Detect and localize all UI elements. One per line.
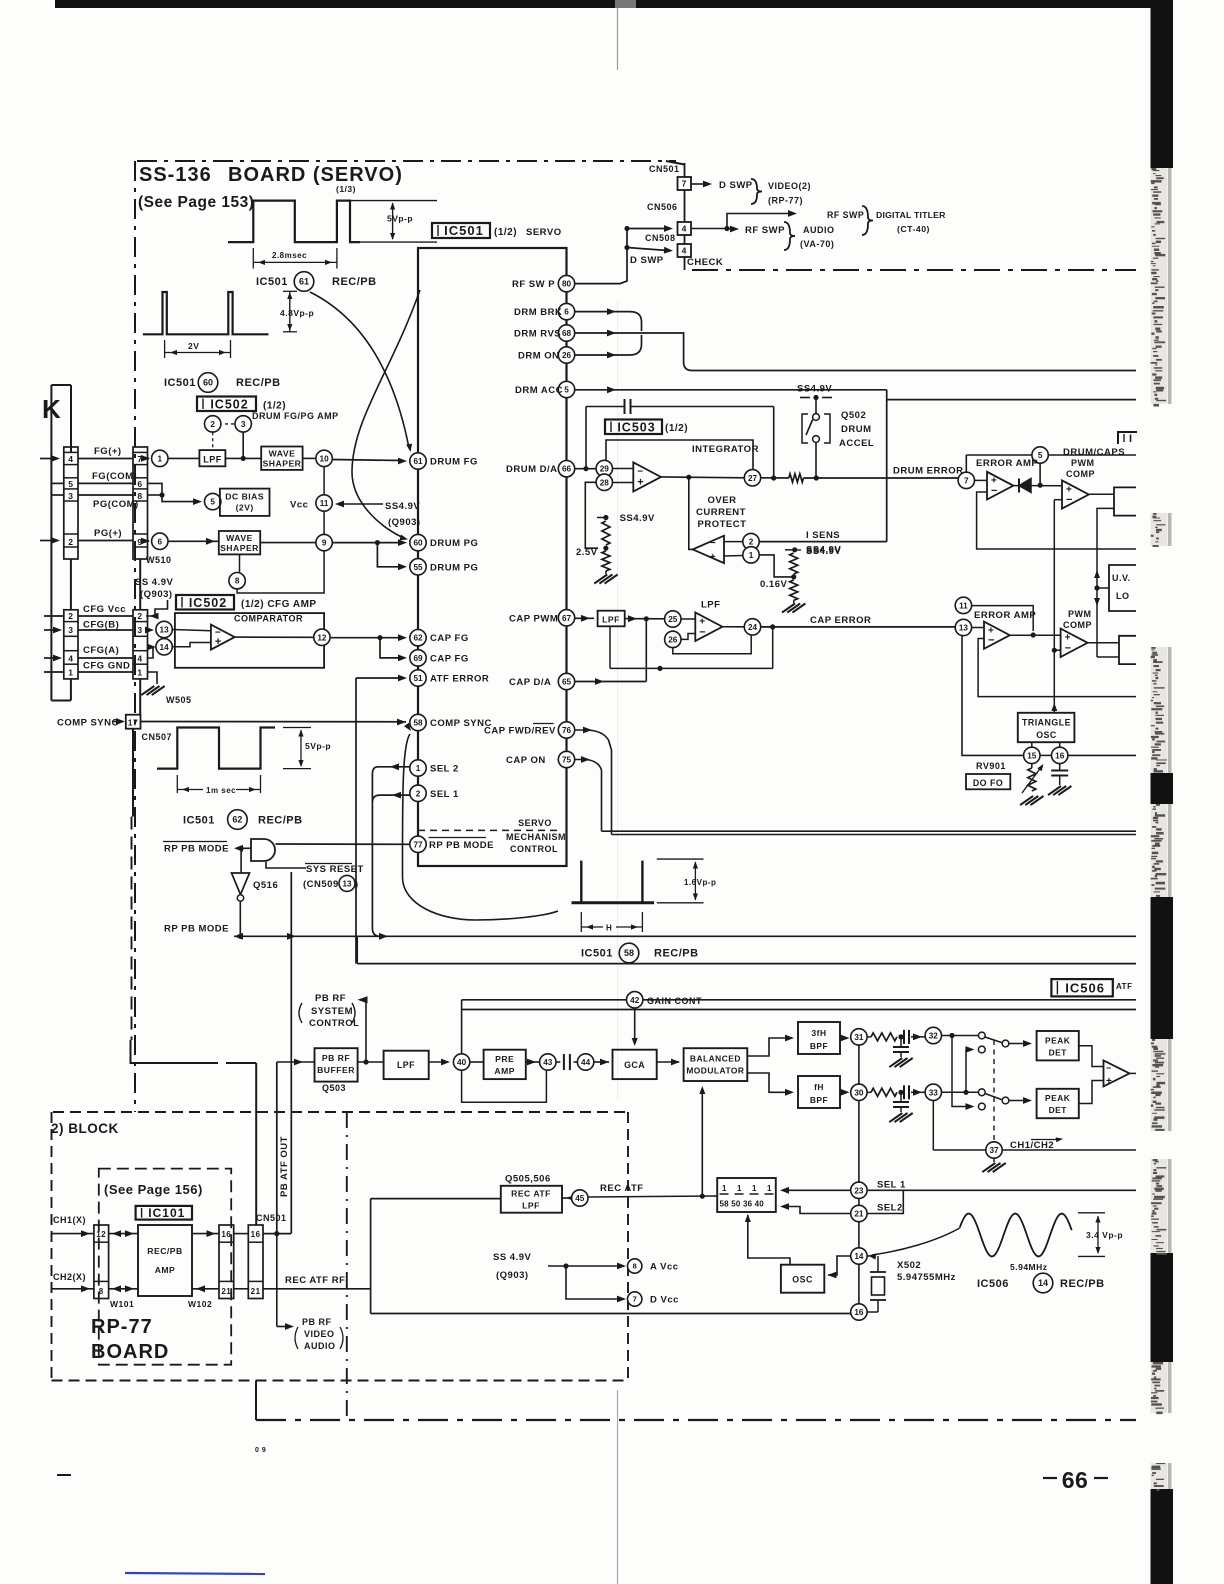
svg-text:SYSTEM: SYSTEM <box>311 1006 353 1017</box>
U.V. LO box partial <box>1109 565 1136 611</box>
IC506 pin 37 <box>986 1142 1002 1158</box>
switch gang dashed link to pin 37 <box>993 1040 995 1142</box>
wire CN501-21 REC ATF RF <box>263 1288 371 1290</box>
wire REC ATF up into balanced modulator <box>701 1089 703 1196</box>
IC504 pin 16 <box>1059 742 1061 747</box>
svg-text:0.16V: 0.16V <box>760 579 787 590</box>
svg-text:65: 65 <box>562 677 572 686</box>
svg-text:IC502: IC502 <box>189 596 227 610</box>
page number 66 <box>1043 1477 1057 1479</box>
wire BM to fH BPF <box>747 1073 791 1092</box>
wire pin 40 to PRE AMP <box>470 1061 484 1063</box>
svg-text:+: + <box>637 477 644 489</box>
svg-text:80: 80 <box>562 280 572 289</box>
wire pin 24 to CAP ERROR line <box>761 626 959 628</box>
svg-text:I SENS: I SENS <box>806 530 840 541</box>
svg-text:DRUM FG/PG AMP: DRUM FG/PG AMP <box>252 411 339 421</box>
svg-text:16: 16 <box>854 1308 864 1317</box>
wire RF SWP out of CN506 <box>691 228 727 230</box>
svg-text:58 50 36 40: 58 50 36 40 <box>720 1200 765 1209</box>
svg-text:SS 4.9V: SS 4.9V <box>493 1252 532 1263</box>
svg-text:SHAPER: SHAPER <box>263 458 302 468</box>
IC501 pin 67 CAP PWM <box>558 610 574 626</box>
SS-136 board dash-dot border top <box>137 160 676 162</box>
svg-text:COMP: COMP <box>1066 469 1095 479</box>
wire BM to 3fH BPF <box>747 1038 791 1056</box>
capstan error amp <box>972 627 984 629</box>
svg-text:IC506: IC506 <box>1065 980 1105 995</box>
IC503 pin 27 <box>744 470 760 486</box>
wire D SWP from CN501-7 <box>691 183 706 185</box>
PEAK DET block 1 <box>1037 1031 1079 1060</box>
wire GCA to BALANCED MODULATOR <box>657 1061 679 1063</box>
wire FG(COM)/PG(COM) to pin 5 <box>148 483 171 501</box>
svg-text:(VA-70): (VA-70) <box>800 239 834 249</box>
svg-text:FG(COM): FG(COM) <box>92 471 137 482</box>
svg-text:RF SWP: RF SWP <box>827 210 864 220</box>
svg-text:27: 27 <box>748 474 758 483</box>
IC502 pin 10 <box>303 457 316 459</box>
INTEGRATOR box outline <box>606 440 753 470</box>
connector column CN501/CN506/CN508 <box>666 161 685 165</box>
svg-text:COMP SYNC: COMP SYNC <box>430 718 492 729</box>
svg-text:(1/3): (1/3) <box>336 184 356 194</box>
IC506 pin 8 A Vcc <box>628 1259 642 1273</box>
switch lower common and lever <box>985 1094 1002 1100</box>
svg-text:25: 25 <box>668 615 678 624</box>
COMPARATOR box <box>175 613 324 668</box>
wire pin 27 to drum error line with series resistor <box>761 477 789 479</box>
svg-text:61: 61 <box>413 457 423 466</box>
wire pin6 to wave shaper 2 <box>168 540 219 542</box>
svg-text:SS4.9V: SS4.9V <box>797 384 832 395</box>
svg-text:INTEGRATOR: INTEGRATOR <box>692 444 759 455</box>
wire DRM RVS <box>575 332 642 334</box>
svg-text:OSC: OSC <box>1036 730 1057 740</box>
RC network row 1 <box>867 1036 871 1038</box>
wire RP PB MODE into AND gate top input <box>236 847 251 849</box>
drum error amp feedback to right edge <box>977 492 1136 549</box>
wire PRE AMP to pin 43 <box>526 1061 540 1063</box>
drum integrator op amp <box>613 468 634 470</box>
wire divider box left to REC ATF <box>714 1195 717 1197</box>
svg-text:3fH: 3fH <box>812 1028 827 1038</box>
svg-text:ATF: ATF <box>1116 982 1132 991</box>
switch contacts lower <box>978 1089 985 1096</box>
svg-text:BOARD: BOARD <box>91 1341 169 1363</box>
connector W101 column <box>94 1225 109 1299</box>
svg-text:37: 37 <box>989 1146 999 1155</box>
svg-text:+: + <box>215 636 222 648</box>
svg-text:43: 43 <box>543 1058 553 1067</box>
IC501 pin 75 CAP ON <box>558 751 574 767</box>
wire buffer to LPF <box>358 1061 384 1063</box>
BALANCED MODULATOR block <box>684 1048 748 1081</box>
IC506 pin 30 <box>851 1084 867 1100</box>
svg-text:5: 5 <box>68 479 73 489</box>
connector W505 right column <box>133 610 148 679</box>
IC503 pin 2 <box>724 541 743 543</box>
page center fold line <box>617 8 619 70</box>
stray mark bottom left <box>57 1474 71 1476</box>
wire CAP PWM pin 67 to LPF <box>575 617 594 619</box>
wire LPF to pin 40 <box>429 1061 446 1063</box>
svg-text:I: I <box>1129 433 1133 445</box>
svg-text:PG(+): PG(+) <box>94 528 122 539</box>
wire OCP output to integrator node <box>689 477 693 549</box>
wire SEL 1 to pin 2 <box>372 795 409 802</box>
label box IC506 ATF <box>1051 979 1112 996</box>
svg-text:14: 14 <box>160 643 170 652</box>
IC506 pin 40 <box>453 1054 469 1070</box>
IC501 pin 62 CAP FG <box>410 630 426 646</box>
svg-text:(Q903): (Q903) <box>388 517 421 528</box>
blue pen line bottom left <box>125 1573 265 1574</box>
svg-text:CAP FG: CAP FG <box>430 633 469 644</box>
rail RP PB MODE to right edge <box>240 935 1136 937</box>
leader curve from label to pin 60 <box>352 290 420 538</box>
svg-text:4: 4 <box>137 654 142 664</box>
RP-77 dashed block outline <box>99 1169 231 1365</box>
wire buffer node to PB RF SYSTEM CONTROL <box>365 1000 367 1062</box>
svg-text:DET: DET <box>1049 1048 1068 1058</box>
svg-text:−: − <box>988 635 995 647</box>
svg-text:51: 51 <box>413 674 423 683</box>
label box IC501 (1/2) SERVO <box>432 223 490 238</box>
svg-text:58: 58 <box>413 718 423 727</box>
dimension 5Vp-p for waveform <box>343 200 437 202</box>
svg-text:−: − <box>991 485 998 497</box>
dimension 2V <box>164 340 166 358</box>
W505 ground <box>148 672 158 684</box>
wire REC ATF LPF output to pin 16 rail <box>371 1198 501 1200</box>
wire AMP to W102-21 <box>192 1288 219 1290</box>
IC503 pin 29 <box>596 460 612 476</box>
IC502 pin 12 <box>235 636 314 638</box>
svg-text:CH2(X): CH2(X) <box>53 1272 86 1282</box>
feedback pin 24 to pin 26 <box>673 635 751 654</box>
wire AMP to W102-16 <box>192 1233 219 1235</box>
PEAK DET block 2 <box>1037 1089 1079 1118</box>
svg-text:44: 44 <box>581 1058 591 1067</box>
svg-text:2.8msec: 2.8msec <box>272 251 307 260</box>
DRM ACC / I SENS vertical and right rail <box>886 390 888 542</box>
svg-text:MODULATOR: MODULATOR <box>686 1066 744 1076</box>
svg-text:RP-77: RP-77 <box>91 1316 153 1338</box>
capstan error amp feedback rail <box>978 639 1136 697</box>
waveform COMP SYNC 5Vp-p square <box>157 728 275 769</box>
svg-text:69: 69 <box>413 654 423 663</box>
svg-text:fH: fH <box>814 1082 824 1092</box>
svg-text:5Vp-p: 5Vp-p <box>387 214 413 224</box>
connector W102 column <box>219 1225 234 1299</box>
pin 37 ground <box>993 1158 995 1162</box>
GCA block <box>613 1050 657 1079</box>
SS-136 board dash-dot border bottom <box>256 1419 1136 1421</box>
svg-text:SERVO: SERVO <box>526 227 562 238</box>
right binding strip <box>1151 0 1168 1584</box>
svg-text:SS4.9V: SS4.9V <box>385 501 420 512</box>
svg-text:3: 3 <box>241 420 246 429</box>
svg-text:IC101: IC101 <box>148 1206 185 1220</box>
svg-text:ERROR AMP: ERROR AMP <box>974 610 1036 621</box>
wire conn9 to IC502 pin 6 <box>148 540 150 542</box>
wire pin10 to IC501 pin 61 <box>332 460 401 461</box>
IC501 pin 76 CAP FWD/REV <box>558 722 574 738</box>
svg-text:16: 16 <box>1055 751 1065 760</box>
svg-text:5Vp-p: 5Vp-p <box>305 741 331 751</box>
svg-text:): ) <box>355 879 359 890</box>
svg-text:1: 1 <box>722 1184 727 1193</box>
DC BIAS (2V) block <box>220 489 270 516</box>
svg-text:DIGITAL TITLER: DIGITAL TITLER <box>876 210 946 220</box>
IC501 pin 26 DRM ON <box>558 347 574 363</box>
svg-text:7: 7 <box>633 1295 637 1304</box>
wire cap error amp output to PWM comp <box>1010 634 1061 636</box>
IC504 pin 15 <box>1031 742 1033 747</box>
svg-text:31: 31 <box>854 1033 864 1042</box>
svg-text:IC501: IC501 <box>581 948 613 960</box>
switch contacts upper <box>978 1032 985 1039</box>
coupling capacitor <box>556 1061 560 1063</box>
wire 3fH BPF to pin 31 <box>840 1037 847 1039</box>
svg-text:RP PB MODE: RP PB MODE <box>429 840 494 851</box>
svg-text:15: 15 <box>1027 751 1037 760</box>
svg-text:66: 66 <box>1062 1467 1089 1493</box>
svg-text:Vcc: Vcc <box>290 500 308 511</box>
svg-text:Q502: Q502 <box>841 410 866 421</box>
previous-block corner with K <box>51 384 71 386</box>
svg-text:DRUM PG: DRUM PG <box>430 563 478 574</box>
label box IC503 (1/2) <box>605 420 662 435</box>
svg-text:(CT-40): (CT-40) <box>897 224 930 234</box>
svg-text:68: 68 <box>562 329 572 338</box>
svg-text:DET: DET <box>1049 1105 1068 1115</box>
svg-text:RV901: RV901 <box>976 761 1006 771</box>
svg-text:4: 4 <box>68 654 73 664</box>
svg-text:4.8Vp-p: 4.8Vp-p <box>280 308 314 318</box>
svg-text:IC501: IC501 <box>256 276 288 288</box>
svg-text:6: 6 <box>158 537 163 546</box>
wire CFG(B) <box>78 629 133 631</box>
wire CAP FWD/REV to right edge <box>575 730 612 835</box>
svg-text:PEAK: PEAK <box>1045 1036 1070 1046</box>
svg-text:FG(+): FG(+) <box>94 446 122 457</box>
wires into comparator <box>172 630 211 631</box>
IC501 internal partition dashed <box>418 829 560 831</box>
svg-text:(RP-77): (RP-77) <box>768 196 803 206</box>
IC504 pin 13 cap error input <box>955 619 971 635</box>
2) BLOCK dashed border <box>53 1111 628 1113</box>
svg-text:BOARD (SERVO): BOARD (SERVO) <box>228 164 403 186</box>
pin 16 capacitor to ground <box>1059 764 1061 770</box>
svg-text:W510: W510 <box>146 555 172 565</box>
svg-text:PB ATF OUT: PB ATF OUT <box>279 1136 290 1197</box>
svg-text:BPF: BPF <box>810 1095 828 1105</box>
IC506 pin 44 <box>577 1054 593 1070</box>
peak det outputs to comparator <box>1079 1046 1104 1067</box>
IC504 pin 7 drum error input <box>958 472 974 488</box>
IC501 pin 77 RP PB MODE <box>410 836 426 852</box>
svg-text:8: 8 <box>99 1287 104 1296</box>
svg-text:−: − <box>1065 642 1072 654</box>
svg-text:CN508: CN508 <box>645 233 676 243</box>
wire CAP D/A pin 65 <box>575 681 647 683</box>
svg-text:3: 3 <box>137 625 142 635</box>
svg-text:60: 60 <box>203 378 213 388</box>
svg-text:9: 9 <box>322 539 327 548</box>
IC501 pin 58 COMP SYNC <box>410 714 426 730</box>
svg-text:PWM: PWM <box>1071 458 1095 468</box>
svg-text:40: 40 <box>457 1058 467 1067</box>
svg-text:45: 45 <box>575 1194 585 1203</box>
svg-text:COMP: COMP <box>1063 620 1092 630</box>
dimension 4.8Vp-p <box>289 291 291 332</box>
svg-text:SS4.9V: SS4.9V <box>806 545 841 556</box>
svg-text:DO FO: DO FO <box>973 778 1003 788</box>
svg-text:PEAK: PEAK <box>1045 1093 1070 1103</box>
svg-text:RP PB MODE: RP PB MODE <box>164 924 229 935</box>
IC506 pin 45 REC ATF <box>562 1197 572 1199</box>
IC502 pin 14 <box>148 648 155 658</box>
svg-text:26: 26 <box>668 635 678 644</box>
svg-text:11: 11 <box>320 499 329 508</box>
cross switch wiring from pin 33 <box>942 1091 979 1093</box>
svg-text:SYS RESET: SYS RESET <box>306 864 364 875</box>
svg-text:MECHANISM: MECHANISM <box>506 832 566 842</box>
svg-text:PWM: PWM <box>1068 609 1092 619</box>
svg-text:4: 4 <box>682 224 687 234</box>
wire PG(+) <box>78 540 133 542</box>
IC503 pin 1 <box>724 555 743 558</box>
svg-text:1.6Vp-p: 1.6Vp-p <box>684 878 716 887</box>
IC501 pin 80 RF SW P <box>558 275 574 291</box>
capstan PWM output box partial <box>1088 642 1119 644</box>
IC501 main box <box>418 248 567 866</box>
svg-text:ERROR AMP: ERROR AMP <box>976 458 1038 469</box>
capstan LPF block <box>598 611 625 627</box>
IC502 pin 13 <box>148 629 153 631</box>
wire conn7 to IC502 pin1 <box>148 457 150 459</box>
IC502 pin 5 <box>205 493 221 509</box>
rail lower to right edge <box>356 936 358 963</box>
svg-text:REC/PB: REC/PB <box>236 377 281 389</box>
previous-block left bus line <box>50 385 52 701</box>
svg-text:DC BIAS: DC BIAS <box>225 492 264 502</box>
AND gate Q516 logic to pin 77 <box>251 839 275 861</box>
svg-text:62: 62 <box>232 815 242 825</box>
3fH BPF block <box>798 1022 840 1054</box>
svg-text:−: − <box>1066 494 1073 506</box>
svg-text:(1/2): (1/2) <box>494 227 517 238</box>
svg-text:(1/2): (1/2) <box>263 401 286 412</box>
triangle osc feed line <box>1053 500 1055 705</box>
svg-text:REC ATF: REC ATF <box>511 1189 551 1199</box>
svg-text:55: 55 <box>413 563 423 572</box>
svg-text:RF SW P: RF SW P <box>512 279 555 290</box>
dimension H <box>580 912 582 932</box>
svg-text:H: H <box>606 924 612 933</box>
svg-text:33: 33 <box>929 1088 939 1097</box>
svg-text:11: 11 <box>959 601 968 610</box>
wire DRM ON <box>575 354 630 356</box>
wire W101-12 to AMP <box>109 1233 138 1235</box>
feedback capacitor over integrator <box>624 399 626 414</box>
svg-text:Q505,506: Q505,506 <box>505 1174 551 1185</box>
svg-text:GCA: GCA <box>624 1060 645 1070</box>
pin 37 select line to right edge <box>1002 1149 1136 1151</box>
wire W101-8 to AMP <box>109 1288 138 1290</box>
svg-text:SERVO: SERVO <box>518 818 552 828</box>
svg-text:PB RF: PB RF <box>302 1317 332 1327</box>
svg-text:PROTECT: PROTECT <box>698 519 747 530</box>
IC506 pin 32 <box>925 1027 941 1043</box>
IC502 pin 6 <box>152 533 168 549</box>
svg-text:DRM BRK: DRM BRK <box>514 307 562 318</box>
IC503 pin 24 <box>722 626 744 628</box>
svg-text:AMP: AMP <box>155 1265 176 1275</box>
waveform 1.6Vp-p pulses <box>572 901 655 904</box>
connector CFG left column <box>64 610 78 679</box>
svg-text:WAVE: WAVE <box>269 448 296 458</box>
svg-text:(1/2): (1/2) <box>665 423 688 434</box>
svg-text:5: 5 <box>210 498 215 507</box>
svg-text:REC/PB: REC/PB <box>1060 1278 1105 1290</box>
wire AND output to pin 77 <box>276 843 410 845</box>
wire pin 13 down to pin 15 rail <box>962 636 1024 756</box>
svg-text:GAIN CONT: GAIN CONT <box>647 996 702 1006</box>
TRIANGLE OSC box <box>1018 713 1075 742</box>
svg-text:(See Page 156): (See Page 156) <box>104 1182 203 1197</box>
IC502 pin 8 feedback <box>239 554 241 572</box>
svg-text:CURRENT: CURRENT <box>696 507 746 518</box>
svg-text:SEL 1: SEL 1 <box>877 1180 906 1191</box>
U.V. LOCK vertical line with arrows <box>1096 511 1098 657</box>
wire pin 66 to IC503 pin 29 <box>575 468 596 470</box>
svg-text:D SWP: D SWP <box>719 180 753 191</box>
riser to PB RF buffer <box>276 1062 278 1234</box>
wire PB ATF line into buffer <box>277 1061 315 1063</box>
wire pin 14 to OSC <box>828 1256 851 1275</box>
svg-text:VIDEO: VIDEO <box>304 1329 335 1339</box>
connector W510 right column <box>133 447 148 559</box>
REC ATF line <box>588 1196 714 1197</box>
merged drum wire to right edge <box>642 333 684 362</box>
waveform 2.8msec square wave <box>228 201 360 243</box>
wire FG(+) <box>78 458 133 460</box>
svg-text:5.94MHz: 5.94MHz <box>1010 1262 1048 1272</box>
svg-text:13: 13 <box>343 879 352 888</box>
IC506 pin 43 <box>540 1054 556 1070</box>
svg-text:BPF: BPF <box>810 1041 828 1051</box>
svg-text:RF SWP: RF SWP <box>745 225 785 236</box>
svg-text:12: 12 <box>317 633 327 642</box>
svg-text:13: 13 <box>160 625 170 634</box>
svg-text:3.4 Vp-p: 3.4 Vp-p <box>1086 1230 1123 1240</box>
IC506 pin 14 <box>851 1248 867 1264</box>
svg-text:24: 24 <box>748 623 758 632</box>
svg-text:1: 1 <box>737 1184 742 1193</box>
IC506 pin 23 <box>851 1182 867 1198</box>
svg-text:−: − <box>1106 1063 1112 1073</box>
svg-text:WAVE: WAVE <box>226 533 253 543</box>
wire FG(COM) <box>78 482 133 484</box>
svg-text:16: 16 <box>251 1230 261 1239</box>
svg-text:5: 5 <box>564 385 569 394</box>
wire pin 1 to 0.16V divider <box>759 555 794 577</box>
IC501 pin 2 SEL 1 <box>410 785 426 801</box>
svg-text:14: 14 <box>1038 1278 1048 1288</box>
